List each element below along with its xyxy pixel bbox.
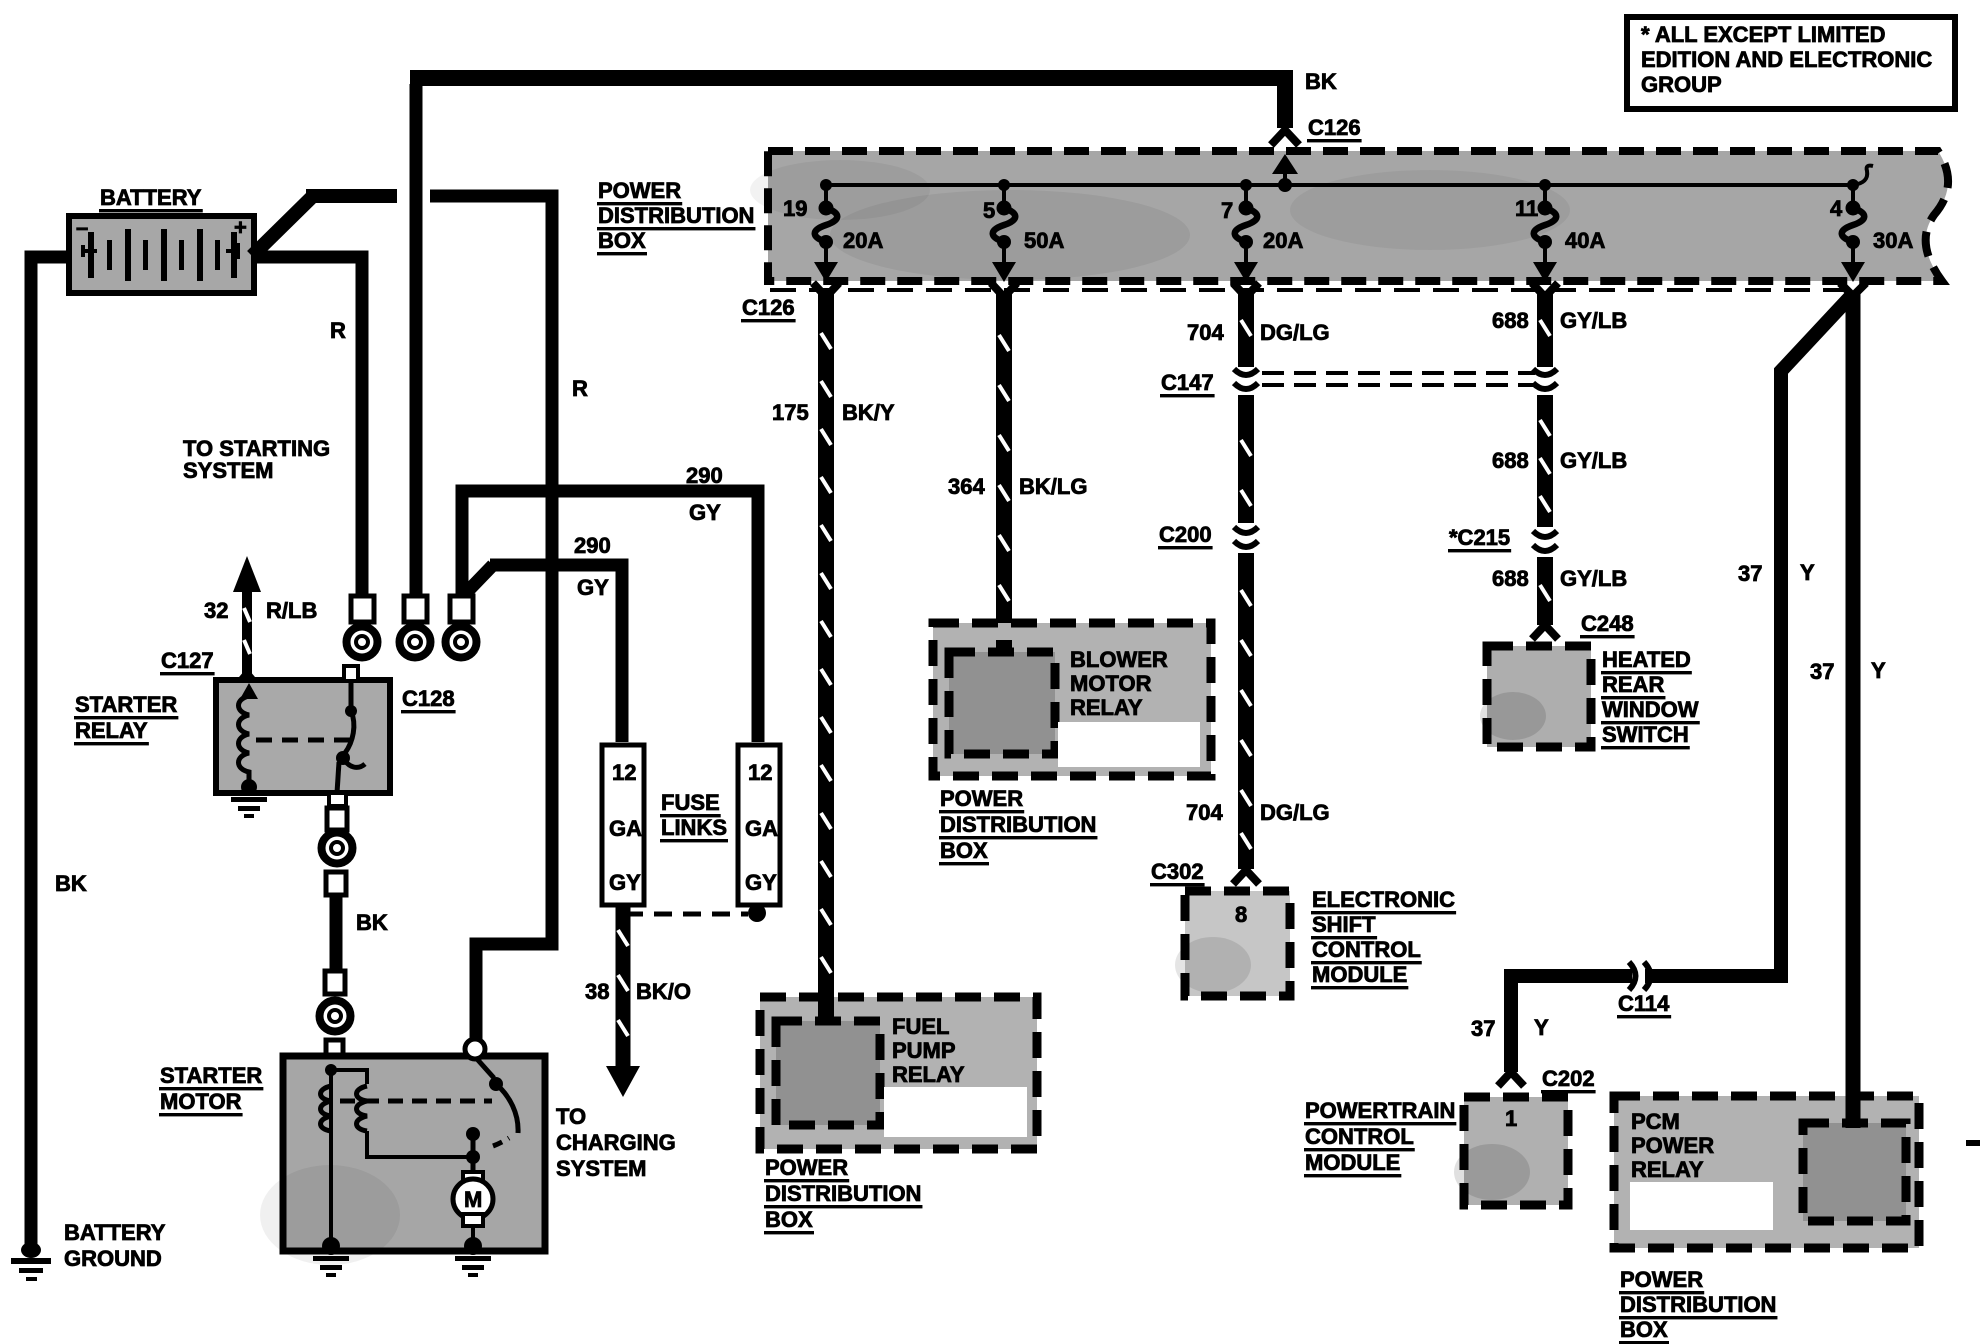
- svg-text:290: 290: [686, 463, 723, 488]
- wire 704 DG/LG lower: [1241, 553, 1251, 869]
- svg-text:11: 11: [1515, 196, 1538, 221]
- svg-text:*C215: *C215: [1449, 525, 1510, 550]
- svg-text:GY: GY: [609, 870, 641, 895]
- fuse F7 20A: [1234, 179, 1258, 282]
- svg-text:C114: C114: [1618, 991, 1670, 1016]
- barrel above BK wire: [326, 872, 346, 895]
- svg-text:BK/Y: BK/Y: [842, 400, 895, 425]
- svg-text:PCM: PCM: [1631, 1109, 1680, 1134]
- svg-text:–: –: [76, 215, 88, 240]
- svg-text:WINDOW: WINDOW: [1602, 697, 1699, 722]
- starter motor box: [283, 1056, 545, 1251]
- svg-text:GA: GA: [745, 816, 778, 841]
- svg-text:BOX: BOX: [598, 228, 646, 253]
- starter motor ground left: [313, 1256, 349, 1277]
- svg-text:R: R: [330, 318, 346, 343]
- svg-text:Y: Y: [1534, 1015, 1549, 1040]
- svg-text:DG/LG: DG/LG: [1260, 320, 1330, 345]
- starter motor coil 2 to motor junction: [367, 1131, 471, 1157]
- starter relay contact: [329, 666, 365, 806]
- wire 688 GY/LB middle: [1540, 395, 1550, 527]
- starter motor dashed armature line: [340, 1099, 492, 1104]
- svg-text:BATTERY: BATTERY: [64, 1220, 166, 1245]
- barrel below starter relay: [327, 808, 347, 830]
- wire 37 Y end into pcm power relay: [1846, 1090, 1861, 1128]
- svg-text:175: 175: [772, 400, 809, 425]
- white patch in fuel pump box: [884, 1087, 1027, 1137]
- pcm power relay power distribution box: [1614, 1096, 1919, 1248]
- ring terminal 3: [446, 596, 477, 658]
- wire 688 GY/LB lower: [1540, 557, 1550, 625]
- svg-text:704: 704: [1186, 800, 1223, 825]
- pcm power relay inner box: [1803, 1123, 1906, 1221]
- wire 175 end into fuel pump relay: [818, 990, 834, 1025]
- wire V1: battery feed down to ring terminal 2: [410, 84, 423, 597]
- svg-text:8: 8: [1235, 902, 1247, 927]
- svg-text:38: 38: [585, 979, 609, 1004]
- svg-text:CHARGING: CHARGING: [556, 1130, 676, 1155]
- connector C114 on horizontal 37 wire: [1629, 962, 1651, 990]
- svg-text:RELAY: RELAY: [1070, 695, 1143, 720]
- svg-text:C128: C128: [402, 686, 455, 711]
- svg-text:BK: BK: [1305, 69, 1337, 94]
- wire R (V2): horizontal then down, jog left into starter motor: [430, 196, 552, 1047]
- svg-text:MOTOR: MOTOR: [160, 1089, 242, 1114]
- svg-text:C302: C302: [1151, 859, 1204, 884]
- svg-text:1: 1: [1505, 1106, 1517, 1131]
- connector *C215 on 688 wire: [1533, 531, 1557, 551]
- wire 175 BK/Y: [821, 293, 831, 1023]
- starter relay dashed armature line: [256, 738, 356, 743]
- wire 688 GY/LB upper: [1540, 293, 1550, 367]
- C126 entry arrow inside box: [1272, 154, 1298, 192]
- svg-text:32: 32: [204, 598, 228, 623]
- svg-text:C127: C127: [161, 648, 214, 673]
- svg-text:C147: C147: [1161, 370, 1214, 395]
- svg-text:STARTER: STARTER: [75, 692, 177, 717]
- connector feet fuse 7 exit: [1233, 283, 1259, 297]
- svg-text:GY/LB: GY/LB: [1560, 308, 1627, 333]
- svg-text:GY/LB: GY/LB: [1560, 566, 1627, 591]
- wire 364 BK/LG: [999, 293, 1009, 655]
- svg-text:SYSTEM: SYSTEM: [183, 458, 273, 483]
- wire 290 GY lower: branch to left fuse link: [466, 565, 493, 593]
- svg-text:DISTRIBUTION: DISTRIBUTION: [765, 1181, 921, 1206]
- svg-text:HEATED: HEATED: [1602, 647, 1691, 672]
- starter motor internals: left branch: [325, 1064, 367, 1243]
- svg-text:BOX: BOX: [940, 838, 988, 863]
- svg-text:5: 5: [983, 198, 995, 223]
- svg-text:30A: 30A: [1873, 228, 1913, 253]
- svg-text:GY: GY: [745, 870, 777, 895]
- battery B1: [69, 215, 254, 293]
- svg-text:BK/O: BK/O: [636, 979, 691, 1004]
- ring terminal below starter relay: [322, 833, 353, 864]
- svg-text:RELAY: RELAY: [892, 1062, 965, 1087]
- svg-text:CONTROL: CONTROL: [1312, 937, 1421, 962]
- svg-text:DISTRIBUTION: DISTRIBUTION: [598, 203, 754, 228]
- svg-text:BK/LG: BK/LG: [1019, 474, 1087, 499]
- svg-text:BATTERY: BATTERY: [100, 185, 202, 210]
- junction dot right fuse link bottom: [748, 904, 766, 922]
- arrow 32 R/LB to starting system: [233, 556, 261, 686]
- svg-text:POWERTRAIN: POWERTRAIN: [1305, 1098, 1455, 1123]
- svg-text:19: 19: [783, 196, 807, 221]
- svg-text:RELAY: RELAY: [1631, 1157, 1704, 1182]
- connector feet fuse 4 exit: [1840, 283, 1866, 296]
- fuse F11 40A: [1533, 179, 1557, 282]
- svg-text:POWER: POWER: [1620, 1267, 1703, 1292]
- wire 38 BK/O: [606, 903, 640, 1097]
- starter motor ground right: [455, 1256, 491, 1277]
- svg-text:DISTRIBUTION: DISTRIBUTION: [1620, 1292, 1776, 1317]
- svg-text:20A: 20A: [1263, 228, 1303, 253]
- svg-text:MOTOR: MOTOR: [1070, 671, 1152, 696]
- electronic shift control module box: [1185, 891, 1290, 996]
- connector feet C248 wire end: [1532, 625, 1558, 639]
- svg-text:POWER: POWER: [598, 178, 681, 203]
- svg-text:R/LB: R/LB: [266, 598, 317, 623]
- svg-text:BOX: BOX: [1620, 1317, 1668, 1342]
- starter relay box: [216, 680, 390, 793]
- svg-text:CONTROL: CONTROL: [1305, 1124, 1414, 1149]
- svg-text:TO: TO: [556, 1104, 586, 1129]
- svg-text:RELAY: RELAY: [75, 718, 148, 743]
- svg-text:4: 4: [1830, 196, 1843, 221]
- svg-text:GY/LB: GY/LB: [1560, 448, 1627, 473]
- svg-text:POWER: POWER: [1631, 1133, 1714, 1158]
- heated rear window switch box: [1487, 646, 1591, 747]
- svg-text:C202: C202: [1542, 1066, 1595, 1091]
- starter relay ground: [231, 797, 267, 818]
- wire 37 Y branch B: straight down to PCM power relay: [1846, 294, 1861, 1126]
- blower motor relay power distribution box: [933, 623, 1211, 776]
- svg-text:FUEL: FUEL: [892, 1014, 949, 1039]
- svg-text:GROUND: GROUND: [64, 1246, 162, 1271]
- svg-text:704: 704: [1187, 320, 1224, 345]
- svg-text:50A: 50A: [1024, 228, 1064, 253]
- wire 704 DG/LG upper: [1241, 293, 1251, 367]
- starter motor coil 2: [357, 1086, 368, 1131]
- svg-text:POWER: POWER: [940, 786, 1023, 811]
- svg-text:EDITION AND ELECTRONIC: EDITION AND ELECTRONIC: [1641, 47, 1932, 72]
- starter motor contact terminal circle: [465, 1039, 485, 1059]
- svg-text:FUSE: FUSE: [661, 790, 720, 815]
- powertrain control module box: [1464, 1097, 1568, 1205]
- svg-text:688: 688: [1492, 308, 1529, 333]
- svg-text:20A: 20A: [843, 228, 883, 253]
- fuse link left box: [602, 745, 644, 905]
- ring terminal 1: [347, 596, 378, 658]
- connector C147 on 704 wire: [1234, 369, 1258, 389]
- svg-text:GY: GY: [577, 575, 609, 600]
- starter motor ground dots: [322, 1237, 340, 1255]
- dashed link between fuse link bottoms: [625, 912, 748, 917]
- wire: battery positive lower to ring terminal 1: [254, 257, 362, 596]
- white patch in blower box: [1058, 722, 1200, 767]
- connector feet fuse 11 exit: [1532, 283, 1558, 297]
- svg-text:REAR: REAR: [1602, 672, 1664, 697]
- connector feet fuse 19 exit: [813, 283, 839, 297]
- svg-text:37: 37: [1738, 561, 1762, 586]
- svg-text:BK: BK: [356, 910, 388, 935]
- svg-text:* ALL EXCEPT LIMITED: * ALL EXCEPT LIMITED: [1641, 22, 1885, 47]
- stray continuation dash right of pcm pdb: [1966, 1140, 1980, 1146]
- svg-text:GY: GY: [689, 500, 721, 525]
- svg-text:7: 7: [1221, 198, 1233, 223]
- svg-text:C248: C248: [1581, 611, 1634, 636]
- svg-text:MODULE: MODULE: [1312, 962, 1407, 987]
- svg-text:BOX: BOX: [765, 1207, 813, 1232]
- wire BK relay to motor: [330, 893, 343, 974]
- note box: all except limited edition: [1627, 17, 1955, 109]
- svg-text:12: 12: [612, 760, 636, 785]
- svg-text:Y: Y: [1800, 560, 1815, 585]
- svg-text:C126: C126: [1308, 115, 1361, 140]
- fuse F5 50A: [992, 179, 1016, 282]
- starter motor coil 1: [321, 1086, 332, 1131]
- svg-text:Y: Y: [1871, 658, 1886, 683]
- wire: battery positive diagonal to horizontal R feed: [252, 197, 312, 256]
- fuse F19 20A: [814, 179, 838, 282]
- wire 290 GY upper: ring 3 up to right fuse link: [462, 491, 758, 742]
- svg-text:SWITCH: SWITCH: [1602, 722, 1689, 747]
- svg-text:37: 37: [1471, 1016, 1495, 1041]
- svg-text:MODULE: MODULE: [1305, 1150, 1400, 1175]
- wire: top BK feed to C126: [410, 78, 1285, 128]
- svg-text:688: 688: [1492, 448, 1529, 473]
- connector C200 on 704 wire: [1234, 527, 1258, 547]
- svg-text:290: 290: [574, 533, 611, 558]
- ring terminal 2: [400, 596, 431, 658]
- svg-text:SHIFT: SHIFT: [1312, 912, 1376, 937]
- svg-text:PUMP: PUMP: [892, 1038, 956, 1063]
- starter relay coil: [239, 683, 259, 795]
- svg-text:688: 688: [1492, 566, 1529, 591]
- bus bar inside PDB: [826, 183, 1853, 187]
- svg-text:GA: GA: [609, 816, 642, 841]
- battery ground symbol: [11, 1242, 51, 1281]
- ring terminal above starter motor: [320, 1001, 351, 1032]
- barrel below BK wire: [325, 971, 345, 994]
- connector feet fuse 5 exit: [991, 283, 1017, 297]
- thin dashed line below PDB: [770, 288, 1862, 292]
- fuel pump relay power distribution box: [760, 997, 1037, 1149]
- svg-text:LINKS: LINKS: [661, 815, 727, 840]
- fuel pump relay inner box: [776, 1021, 880, 1125]
- fuse link right box: [738, 745, 780, 905]
- svg-text:GROUP: GROUP: [1641, 72, 1722, 97]
- starter motor M motor: [453, 1172, 493, 1243]
- connector feet C126 wire end: [1271, 130, 1299, 145]
- white patch in pcm box: [1630, 1182, 1773, 1230]
- wire: battery negative to ground (BK): [31, 257, 70, 1246]
- svg-text:BK: BK: [55, 871, 87, 896]
- svg-text:BLOWER: BLOWER: [1070, 647, 1168, 672]
- svg-text:DG/LG: DG/LG: [1260, 800, 1330, 825]
- svg-text:364: 364: [948, 474, 985, 499]
- wire 37 Y branch A: diagonal, down, across to C202: [1511, 296, 1851, 1072]
- bus end curl: [1853, 166, 1873, 185]
- svg-text:C126: C126: [742, 295, 795, 320]
- svg-text:ELECTRONIC: ELECTRONIC: [1312, 887, 1455, 912]
- connector feet C202 wire end: [1498, 1072, 1524, 1086]
- svg-text:12: 12: [748, 760, 772, 785]
- svg-text:STARTER: STARTER: [160, 1063, 262, 1088]
- connector on 688 wire at C147: [1533, 369, 1557, 389]
- fuse F4 30A: [1841, 179, 1865, 282]
- svg-text:37: 37: [1810, 659, 1834, 684]
- connector feet C302 wire end: [1233, 870, 1259, 884]
- svg-text:DISTRIBUTION: DISTRIBUTION: [940, 812, 1096, 837]
- svg-text:R: R: [572, 376, 588, 401]
- power distribution box (top): [750, 151, 1948, 281]
- svg-text:40A: 40A: [1565, 228, 1605, 253]
- wire 704 DG/LG middle: [1241, 395, 1251, 523]
- svg-text:SYSTEM: SYSTEM: [556, 1156, 646, 1181]
- blower motor relay inner box: [949, 652, 1055, 754]
- wire 364 end into blower relay: [996, 640, 1012, 655]
- svg-text:POWER: POWER: [765, 1155, 848, 1180]
- svg-text:C200: C200: [1159, 522, 1212, 547]
- connector square on starter motor top: [326, 1040, 343, 1056]
- starter motor contact: [466, 1059, 518, 1178]
- svg-text:M: M: [464, 1187, 482, 1212]
- C147 double dashed lines to 688 wire: [1262, 373, 1535, 385]
